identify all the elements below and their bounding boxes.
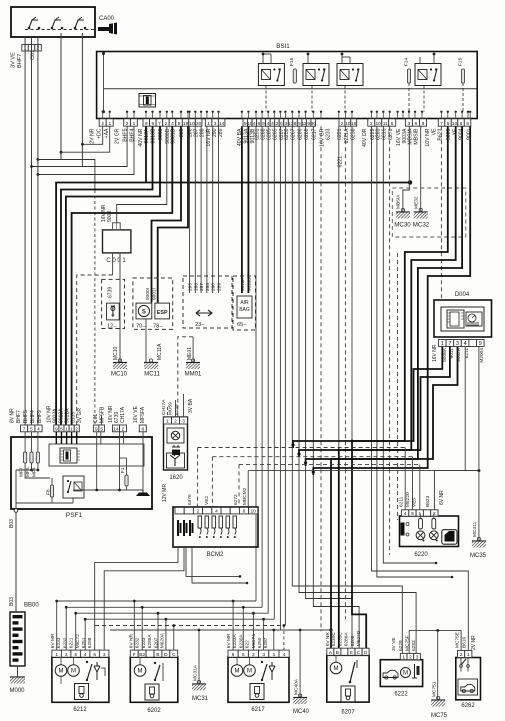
fuse F16: [293, 69, 296, 83]
svg-text:7: 7: [448, 341, 451, 347]
svg-text:6272: 6272: [233, 494, 239, 505]
PSF1 fuse F1: [125, 475, 128, 486]
svg-text:10: 10: [345, 121, 351, 127]
drop 6217 p4 dashed: [283, 626, 285, 651]
1620 lamp symbol: [167, 428, 184, 443]
wire to MC32: [420, 126, 422, 211]
BSI1 connector pin group 1: [99, 119, 106, 126]
svg-text:8: 8: [141, 426, 144, 432]
wire MC35: [478, 471, 480, 540]
svg-text:C: C: [172, 652, 176, 658]
svg-text:6V MR: 6V MR: [50, 633, 56, 648]
svg-text:F8: F8: [46, 489, 52, 495]
svg-text:M: M: [138, 669, 143, 675]
svg-text:C01: C01: [30, 50, 36, 60]
svg-text:3: 3: [416, 654, 419, 660]
svg-text:6232: 6232: [62, 637, 68, 648]
svg-text:622: 622: [245, 640, 251, 648]
routing line y470: [248, 470, 479, 472]
svg-text:MC10: MC10: [113, 346, 119, 360]
box BCM2: [173, 507, 258, 547]
svg-text:MF5: MF5: [25, 467, 31, 477]
1620 pin wires: [167, 407, 169, 417]
column to 6207 pinE: [306, 126, 352, 649]
svg-text:6221: 6221: [338, 156, 344, 168]
BCM2 riser pin10: [247, 471, 249, 508]
svg-text:6222: 6222: [394, 692, 408, 698]
svg-text:6235C: 6235C: [337, 632, 343, 647]
svg-text:MC30: MC30: [394, 222, 411, 229]
PSF1 top pin group 2: [54, 425, 59, 432]
6220 lamp 1: [419, 519, 423, 530]
6220 pin5 wire: [412, 457, 414, 510]
svg-text:MIC72: MIC72: [75, 634, 81, 648]
drop MC40: [299, 630, 301, 697]
wire elbow BHF4: [38, 126, 134, 174]
AIR BAG text: [237, 296, 252, 318]
svg-text:BHF4: BHF4: [130, 128, 136, 141]
PSF1 internal col wires: [96, 432, 98, 466]
svg-text:16V NR: 16V NR: [432, 344, 438, 362]
svg-text:CH17A: CH17A: [120, 406, 126, 423]
svg-text:23--: 23--: [195, 322, 205, 328]
ground MC75: [431, 696, 445, 706]
D004 meter symbol: [466, 312, 482, 326]
6212 pin row: [52, 650, 62, 657]
dashed box 23 (autoradio): [183, 276, 232, 328]
svg-text:4: 4: [271, 121, 274, 127]
svg-text:F16: F16: [289, 57, 295, 66]
relay supply wires: [262, 54, 264, 64]
ground MC30: [396, 208, 410, 218]
thick feed 4: [313, 126, 470, 475]
box D004 inner: [441, 307, 484, 331]
svg-text:2: 2: [276, 121, 279, 127]
6262 car icon box: [458, 679, 478, 695]
svg-text:M: M: [334, 666, 339, 672]
drop 6212 pin1: [56, 601, 58, 650]
svg-text:CH17A: CH17A: [161, 399, 167, 415]
svg-text:2V NR: 2V NR: [471, 635, 477, 650]
svg-text:10V NR: 10V NR: [425, 128, 431, 146]
wire to MC30: [403, 126, 409, 211]
PSF1 fuse F8: [50, 485, 53, 497]
svg-text:F: F: [133, 652, 136, 658]
wire elbow thick 9000D to PSF: [72, 126, 173, 425]
svg-text:6: 6: [415, 121, 418, 127]
drop 6202 pinF: [133, 601, 135, 650]
svg-text:MC75F: MC75F: [405, 635, 411, 651]
svg-text:MC75E: MC75E: [455, 632, 461, 648]
column to 6222 pin3: [299, 126, 416, 653]
thick feed 2: [299, 126, 456, 457]
svg-text:MM01: MM01: [185, 372, 202, 378]
6217 lock icon: [250, 684, 264, 700]
svg-text:20: 20: [196, 121, 202, 127]
svg-text:6285: 6285: [267, 128, 273, 140]
ground MC31: [192, 680, 206, 690]
svg-text:6265: 6265: [273, 128, 279, 140]
svg-text:2: 2: [101, 121, 104, 127]
svg-text:BHF5: BHF5: [123, 128, 129, 141]
routing y576 stub: [186, 547, 240, 576]
svg-text:2: 2: [65, 652, 68, 658]
drop 6217 p5: [242, 607, 244, 650]
svg-text:3: 3: [103, 652, 106, 658]
svg-text:10: 10: [376, 121, 382, 127]
D004 pin4 wire: [464, 347, 466, 472]
svg-text:4: 4: [404, 511, 407, 517]
svg-text:9008: 9008: [158, 128, 164, 140]
svg-text:3V VE: 3V VE: [11, 52, 17, 68]
mechanical link dashed line: [25, 29, 95, 31]
1620 pin row: [164, 417, 172, 424]
svg-text:6: 6: [151, 121, 154, 127]
ESP S symbol: [136, 303, 152, 319]
wire 9000I thick to ESP: [152, 126, 182, 302]
svg-text:6616: 6616: [382, 128, 388, 140]
svg-text:2V NR: 2V NR: [90, 128, 96, 144]
svg-text:MC11: MC11: [144, 372, 160, 378]
drop 6202 pinB2: [141, 607, 143, 650]
dashed route MM01 to 1620: [178, 337, 193, 417]
thick feed 1: [293, 126, 448, 448]
svg-text:6739: 6739: [108, 287, 114, 298]
svg-text:6251: 6251: [254, 128, 260, 140]
svg-text:12V MR: 12V MR: [162, 484, 168, 502]
svg-text:BHF7: BHF7: [16, 410, 22, 423]
svg-text:6217: 6217: [312, 128, 318, 140]
6217 switch 2: [269, 662, 275, 680]
svg-text:1: 1: [55, 652, 58, 658]
thick feed 3: [306, 126, 463, 466]
BCM2 riser pin4: [211, 457, 213, 508]
svg-text:MC40A: MC40A: [294, 678, 300, 695]
wire 9001I thick to ESP: [158, 126, 188, 302]
svg-text:6221: 6221: [69, 637, 75, 648]
svg-text:6239: 6239: [174, 404, 180, 415]
svg-text:D004: D004: [455, 292, 470, 298]
svg-text:8: 8: [466, 121, 469, 127]
svg-text:288: 288: [205, 283, 211, 291]
svg-text:2: 2: [165, 121, 168, 127]
PSF1 internal ground: [142, 490, 144, 493]
routing line y464 dashed: [239, 463, 420, 465]
svg-text:4: 4: [84, 652, 87, 658]
D004 IC symbol: [447, 310, 464, 328]
svg-text:MC31A: MC31A: [193, 664, 199, 681]
BCM2 bottom wire b: [104, 547, 184, 650]
svg-text:4: 4: [283, 652, 286, 658]
wire elbow thick 9008 to PSF: [66, 126, 160, 425]
svg-text:1: 1: [441, 341, 444, 347]
svg-text:MF5FB: MF5FB: [100, 406, 106, 423]
PSF1 top pin group 3: [93, 425, 99, 432]
junction bus y630 at pinA wire: [330, 629, 333, 632]
relay internal dashed drops: [265, 86, 267, 112]
svg-text:B03: B03: [9, 597, 15, 606]
svg-text:286: 286: [193, 283, 199, 291]
relay 3 in BSI1: [337, 64, 363, 86]
6202 switch: [154, 679, 156, 681]
bus y613: [76, 612, 269, 614]
svg-text:B03: B03: [9, 519, 15, 528]
bus y607: [66, 606, 262, 608]
svg-text:3: 3: [262, 652, 265, 658]
svg-text:6233: 6233: [56, 637, 62, 648]
D004 pin9 wire: [478, 347, 480, 471]
svg-text:5: 5: [242, 652, 245, 658]
svg-text:6288: 6288: [261, 128, 267, 140]
ground MC32: [414, 208, 428, 218]
D004 pin row: [439, 340, 447, 347]
6212 switch 1: [86, 661, 88, 663]
svg-text:285: 285: [188, 283, 194, 291]
svg-text:B616: B616: [462, 636, 468, 648]
svg-text:9008: 9008: [107, 211, 113, 222]
box 1620: [164, 417, 188, 470]
wire C01 (CA00 mid pin down): [31, 37, 33, 425]
svg-text:40V OR: 40V OR: [362, 128, 368, 147]
dashed route C001 to PSF pin2: [77, 275, 113, 425]
svg-text:1: 1: [402, 654, 405, 660]
BSI1 pin stub wires: [102, 112, 104, 119]
svg-text:MC11A: MC11A: [157, 343, 163, 360]
1620 washer jet symbol: [167, 453, 185, 468]
box C001: [103, 230, 131, 253]
dashed middle column: [320, 126, 322, 631]
svg-text:10: 10: [189, 121, 195, 127]
svg-text:VE2: VE2: [204, 496, 210, 505]
BCM2 battery symbols: [178, 520, 181, 536]
svg-text:6232: 6232: [135, 637, 141, 648]
svg-text:BHF7: BHF7: [17, 54, 23, 68]
BCM2 riser pin2 dashed: [197, 448, 199, 508]
BSI1 inner left wire: [103, 52, 105, 112]
svg-text:5: 5: [60, 426, 63, 432]
svg-text:7: 7: [440, 121, 443, 127]
svg-text:6285A: 6285A: [147, 634, 153, 649]
box 6212: [52, 657, 109, 702]
svg-text:70--: 70--: [136, 324, 146, 330]
svg-text:6212: 6212: [73, 707, 87, 713]
PSF1 inner top box: [49, 444, 144, 466]
svg-text:6V NR: 6V NR: [129, 634, 135, 649]
svg-text:6220: 6220: [414, 552, 428, 558]
svg-text:6260: 6260: [304, 128, 310, 140]
svg-text:6V NR: 6V NR: [325, 632, 331, 647]
svg-text:6286A: 6286A: [344, 632, 350, 647]
connector C01 pins 1,2: [22, 45, 29, 52]
svg-text:D: D: [364, 650, 368, 656]
svg-text:MC31: MC31: [192, 696, 209, 702]
svg-text:5: 5: [411, 511, 414, 517]
svg-text:2: 2: [122, 426, 125, 432]
svg-text:9: 9: [55, 426, 58, 432]
BSI1 connector pin group 7: [368, 119, 375, 126]
drop 6262 pin2: [460, 630, 462, 650]
box D004 outer: [434, 300, 492, 337]
battery bottom wire: [17, 666, 19, 677]
dashed box 12 (transponder): [102, 279, 125, 328]
drop 6212 pin4: [84, 619, 86, 650]
svg-text:6V NR: 6V NR: [439, 490, 445, 505]
box 6220: [400, 516, 459, 547]
drop 6212 pin5: [75, 613, 77, 650]
svg-text:ESP: ESP: [157, 310, 168, 316]
svg-text:14: 14: [219, 121, 225, 127]
drop 6212 pin2: [65, 607, 67, 650]
battery BB00: [10, 612, 25, 666]
D004 pin7 thick wire: [339, 347, 450, 649]
svg-text:F15: F15: [458, 57, 464, 66]
svg-text:30: 30: [311, 121, 317, 127]
ignition switch contact 3: [74, 17, 87, 29]
bus y619: [85, 618, 274, 620]
svg-text:M2004: M2004: [479, 348, 485, 363]
PSF1 B03 terminal: [14, 509, 18, 513]
svg-text:7: 7: [158, 121, 161, 127]
svg-text:1: 1: [418, 511, 421, 517]
svg-text:6139: 6139: [71, 412, 77, 423]
box 6202: [130, 657, 178, 702]
long middle wire columns: [255, 126, 257, 601]
PSF1 inner relay box: [63, 476, 84, 498]
svg-text:BHF4: BHF4: [30, 410, 36, 423]
box 6207: [327, 655, 369, 702]
bus y630 east segment: [409, 629, 461, 631]
wire from switch 3 down: [81, 33, 83, 167]
svg-text:288: 288: [199, 128, 205, 137]
right dashed columns: [389, 126, 391, 555]
ground MC35: [472, 537, 486, 547]
1620 battery symbol: [172, 445, 180, 450]
svg-text:F14: F14: [404, 57, 410, 66]
routing line y447 dashed: [198, 447, 406, 449]
svg-text:3V GR: 3V GR: [77, 408, 83, 423]
box 6222: [380, 660, 422, 687]
6207 motor: [330, 662, 342, 674]
6222 thermo symbol: [412, 664, 417, 678]
svg-text:3: 3: [214, 121, 217, 127]
6212 motor 1: [55, 665, 67, 677]
svg-text:6217: 6217: [251, 707, 265, 713]
svg-text:4: 4: [267, 121, 270, 127]
long thick bus wire y182.5: [56, 183, 410, 426]
6220 lamp 2: [432, 519, 436, 530]
svg-text:2V GR: 2V GR: [115, 128, 121, 144]
dashed box 65 (airbag): [233, 276, 256, 330]
drop 6217 p1: [273, 630, 275, 650]
PSF1 wires bottom: [16, 470, 25, 510]
svg-text:MC751: MC751: [432, 681, 438, 697]
svg-text:8V NR: 8V NR: [10, 408, 16, 423]
svg-text:6267: 6267: [291, 128, 297, 140]
svg-text:9013A: 9013A: [144, 128, 150, 144]
dashed box 70/78 (ESP): [133, 278, 173, 329]
svg-text:M000: M000: [9, 688, 25, 694]
column to 6207 pinC: [313, 126, 359, 649]
wire BHF4 col (CA00 pin2 down): [37, 37, 39, 425]
svg-text:6202: 6202: [147, 708, 161, 714]
svg-text:6286: 6286: [297, 128, 303, 140]
svg-text:6221A: 6221A: [344, 128, 350, 144]
wire elbow thick to PSF pin5: [61, 126, 153, 425]
svg-text:65--: 65--: [237, 322, 247, 328]
drop 6217 p3: [263, 619, 265, 650]
6217 pin row: [228, 650, 238, 657]
PSF1 IC component: [60, 448, 77, 463]
box PSF1: [11, 437, 152, 509]
svg-text:6230C: 6230C: [331, 632, 337, 647]
PSF1 top pin group 5: [139, 425, 146, 432]
svg-text:6233: 6233: [141, 637, 147, 648]
dashed wire left of C001: [94, 190, 96, 425]
svg-text:MF7: MF7: [19, 467, 25, 477]
svg-text:6376: 6376: [187, 494, 193, 505]
6212 motor 2: [68, 665, 80, 677]
svg-text:14: 14: [113, 426, 119, 432]
svg-text:3V VE: 3V VE: [391, 637, 397, 651]
svg-text:6230A: 6230A: [238, 634, 244, 649]
svg-text:MC35: MC35: [470, 553, 487, 559]
svg-text:6276: 6276: [388, 128, 394, 140]
6217 motor 2: [244, 665, 256, 677]
stub PSF pin5 row3: [100, 415, 102, 425]
6262 contacts: [460, 665, 463, 668]
BSI1 outer box: [97, 52, 478, 119]
svg-text:6229: 6229: [398, 640, 404, 651]
6220 pin1 wire: [419, 464, 421, 509]
svg-text:1: 1: [70, 426, 73, 432]
svg-text:12--: 12--: [107, 324, 117, 330]
svg-text:8: 8: [145, 121, 148, 127]
svg-text:287: 287: [199, 283, 205, 291]
svg-text:10: 10: [251, 509, 257, 515]
6207 switch: [349, 681, 352, 684]
svg-text:6233: 6233: [325, 128, 331, 140]
svg-text:285: 285: [179, 128, 185, 137]
PSF1 fuse MF4: [36, 452, 39, 463]
svg-text:2: 2: [370, 121, 373, 127]
svg-text:M: M: [235, 669, 240, 675]
svg-text:B: B: [336, 650, 339, 656]
svg-text:289: 289: [217, 283, 223, 291]
6212 lock icon: [75, 684, 89, 700]
PSF1 fuse MF5: [30, 452, 33, 463]
svg-text:6: 6: [280, 121, 283, 127]
PSF1 top pin group 1: [21, 425, 28, 432]
wire to MM01: [192, 337, 194, 363]
ignition switch contact 1: [28, 17, 41, 29]
svg-text:6288: 6288: [87, 637, 93, 648]
box 6262: [456, 658, 481, 700]
svg-text:CA00: CA00: [99, 16, 115, 22]
svg-text:8: 8: [422, 121, 425, 127]
svg-text:F1: F1: [120, 467, 126, 473]
svg-text:6262: 6262: [461, 703, 475, 709]
svg-text:6: 6: [93, 652, 96, 658]
svg-text:MC311: MC311: [472, 522, 478, 537]
wire to MC11: [145, 319, 147, 363]
svg-text:6233A: 6233A: [232, 634, 238, 649]
svg-text:15: 15: [351, 121, 357, 127]
svg-text:5: 5: [391, 121, 394, 127]
svg-text:D: D: [164, 652, 168, 658]
drop 6222 pin2: [408, 630, 410, 653]
BSI1 inner strip divider: [104, 88, 477, 90]
PSF1 F1 wires: [126, 458, 128, 475]
